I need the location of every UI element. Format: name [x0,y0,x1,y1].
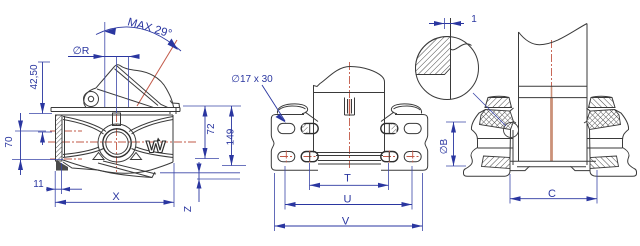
svg-text:72: 72 [206,123,217,135]
svg-text:Z: Z [183,206,194,212]
svg-text:∅R: ∅R [73,45,90,57]
svg-text:1: 1 [471,14,477,25]
svg-text:149: 149 [226,128,237,145]
svg-text:X: X [112,191,120,203]
svg-text:W: W [146,138,166,157]
svg-text:∅B: ∅B [439,138,450,154]
svg-text:11: 11 [33,179,44,190]
svg-text:U: U [344,194,352,206]
svg-text:C: C [548,188,556,200]
svg-text:∅17 x 30: ∅17 x 30 [231,74,273,85]
svg-text:T: T [344,173,351,185]
svg-text:70: 70 [4,136,15,148]
svg-text:42,50: 42,50 [29,64,40,89]
